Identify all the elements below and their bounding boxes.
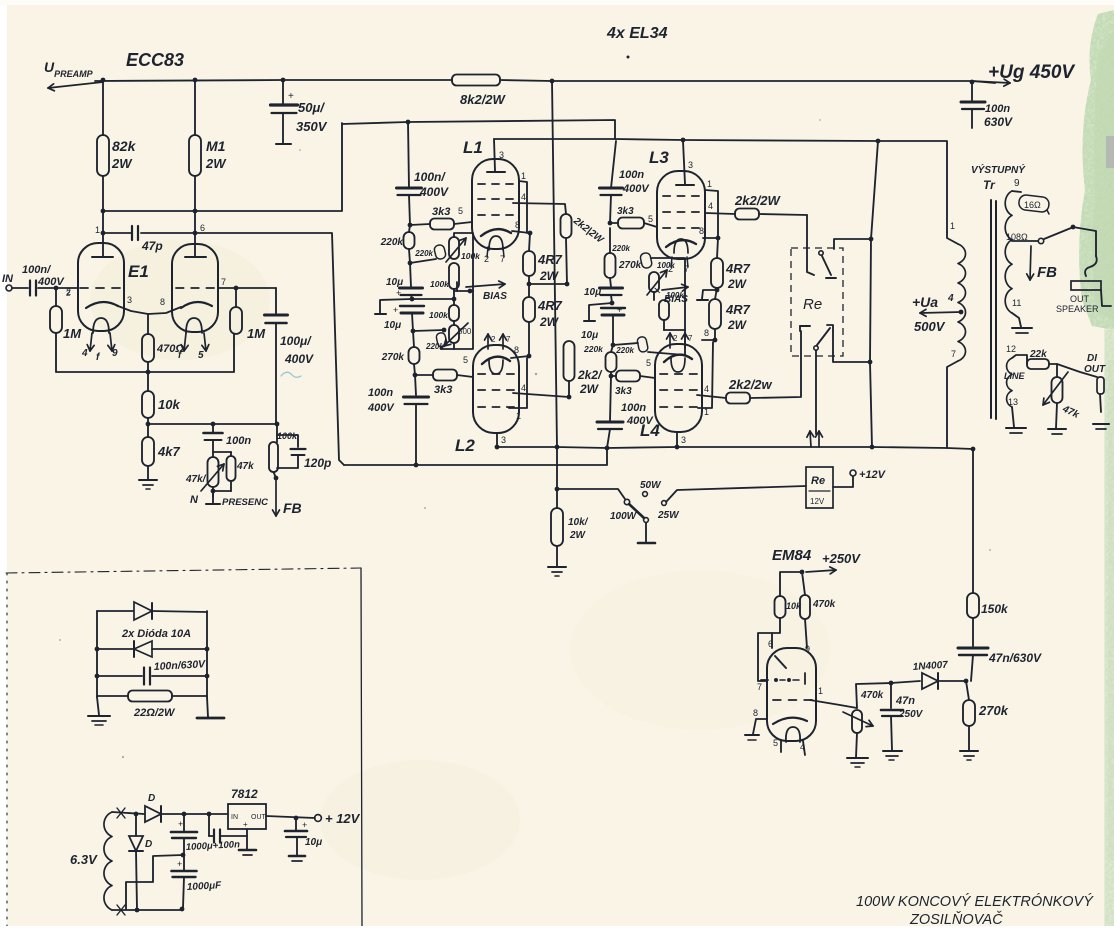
node +250V supply bbox=[800, 570, 805, 575]
svg-text:100n/: 100n/ bbox=[414, 170, 446, 184]
wire y299 to 100k + ground stub bbox=[412, 298, 454, 300]
relay upper common to vertical bbox=[834, 239, 871, 249]
wire y331 to lower cluster bbox=[413, 330, 444, 331]
transformer Tr primary winding bbox=[958, 244, 966, 361]
ground right psu bbox=[207, 697, 208, 717]
svg-text:5: 5 bbox=[463, 355, 468, 365]
resistor 220k small upper cluster bbox=[433, 244, 446, 260]
resistor 3k3 L1 grid stopper bbox=[410, 224, 430, 225]
svg-text:11: 11 bbox=[1012, 298, 1021, 308]
wire column from y123 wire bbox=[408, 122, 409, 188]
transformer heater winding 6.3V bbox=[104, 812, 112, 910]
capacitor 100n/400V L1 grid feed bbox=[397, 187, 422, 190]
regulator ground pin bbox=[246, 829, 248, 849]
node cathode/1M loop junction bbox=[146, 370, 151, 375]
svg-text:47p: 47p bbox=[141, 239, 163, 253]
svg-text:4R7: 4R7 bbox=[537, 298, 563, 313]
svg-text:+Ug 450V: +Ug 450V bbox=[988, 62, 1075, 83]
wire L4 pin4 screen bbox=[697, 395, 726, 398]
ground below 47n bbox=[883, 750, 902, 752]
tube L1 pin3 to screen rail bbox=[494, 139, 495, 171]
tube L4 pin3 bottom bbox=[676, 432, 678, 447]
svg-text:630V: 630V bbox=[984, 115, 1013, 129]
tube L2 cathode arc top bbox=[482, 357, 510, 364]
resistor 2k2/2W screen L2 bbox=[564, 341, 575, 381]
svg-text:8: 8 bbox=[753, 708, 758, 718]
resistor 4R7 2W lower bbox=[523, 297, 535, 322]
resistor M1/2W plate load bbox=[194, 80, 196, 135]
svg-text:+: + bbox=[178, 819, 183, 829]
wire top B+ rail bbox=[95, 80, 452, 81]
node L4 cathode bbox=[713, 338, 718, 343]
svg-text:4: 4 bbox=[521, 383, 526, 393]
svg-text:10μ: 10μ bbox=[386, 277, 403, 288]
ground below 47k pot bbox=[1056, 403, 1057, 428]
svg-text:3: 3 bbox=[681, 435, 686, 445]
tube L4 EL34 bbox=[655, 344, 702, 432]
tube E1 heater pin arrows 4 f 9 bbox=[90, 333, 92, 351]
tube L2 heater arrows 2 7 bbox=[487, 334, 489, 349]
node between right 10u caps + ground stub bbox=[610, 301, 615, 306]
capacitor 120p NFB bbox=[277, 435, 298, 447]
svg-text:Tr: Tr bbox=[983, 178, 996, 192]
potentiometer 100k upper cluster bbox=[449, 237, 459, 259]
svg-text:FB: FB bbox=[1037, 264, 1057, 281]
svg-text:10μ: 10μ bbox=[305, 837, 322, 848]
resistor 270k lower right bbox=[611, 345, 613, 352]
svg-text:400V: 400V bbox=[37, 276, 65, 288]
node lower right bias tap bbox=[611, 343, 616, 348]
svg-text:BIAS: BIAS bbox=[483, 291, 507, 302]
node between right 4R7s + ground stub bbox=[715, 288, 720, 293]
svg-text:2W: 2W bbox=[111, 156, 133, 171]
svg-text:3k3: 3k3 bbox=[432, 206, 450, 218]
relay coil connection arrows bbox=[810, 431, 811, 447]
svg-text:100k: 100k bbox=[277, 431, 298, 441]
svg-text:500: 500 bbox=[458, 327, 472, 336]
svg-text:2: 2 bbox=[673, 334, 678, 343]
resistor 4R7 2W right lower bbox=[709, 299, 721, 329]
resistor 100k right cluster bbox=[659, 300, 669, 320]
svg-text:IN: IN bbox=[2, 273, 14, 285]
svg-text:6.3V: 6.3V bbox=[70, 852, 98, 867]
line winding coil bbox=[1007, 358, 1012, 407]
svg-text:✕: ✕ bbox=[653, 286, 661, 297]
wire E1 plate bus y=211 bbox=[103, 123, 342, 211]
svg-text:Re: Re bbox=[811, 475, 825, 487]
svg-text:SPEAKER: SPEAKER bbox=[1056, 304, 1099, 314]
svg-text:3: 3 bbox=[688, 160, 693, 170]
potentiometer 470k EM84 grid bbox=[852, 710, 862, 733]
svg-text:4: 4 bbox=[704, 384, 709, 394]
svg-text:OUT: OUT bbox=[1070, 294, 1090, 304]
blue scanner squiggle bbox=[281, 372, 301, 377]
capacitor 1000uF lower bbox=[183, 855, 185, 870]
svg-text:400V: 400V bbox=[622, 183, 650, 195]
svg-text:1M: 1M bbox=[247, 326, 266, 341]
tube L3 grid dash rows bbox=[663, 195, 670, 197]
node between 4R7s bbox=[527, 282, 532, 287]
resistor 220k small right upper bbox=[640, 252, 653, 269]
svg-text:3: 3 bbox=[127, 295, 132, 305]
tube L2 grid dash rows bbox=[478, 373, 485, 375]
svg-text:2W: 2W bbox=[539, 269, 560, 283]
tube L2 pin3 bottom bbox=[496, 433, 498, 447]
wires right cluster box bbox=[648, 258, 685, 355]
relay lower fixed bracket bbox=[800, 325, 810, 327]
wire top rail right of 8k2 bbox=[500, 80, 995, 83]
resistor 220k upper left bbox=[409, 225, 410, 232]
wire right column from y141 bbox=[611, 141, 616, 188]
potentiometer 500 lower cluster bbox=[453, 321, 455, 325]
svg-text:2W: 2W bbox=[727, 318, 748, 332]
svg-text:470k: 470k bbox=[812, 599, 836, 610]
svg-text:100n: 100n bbox=[368, 387, 393, 399]
resistor 47k presence bbox=[213, 451, 231, 453]
tube L1 EL34 bbox=[472, 159, 519, 249]
svg-text:100n: 100n bbox=[985, 103, 1010, 115]
tube EM84 cathode arc and heater loop bbox=[773, 718, 807, 724]
svg-text:1: 1 bbox=[521, 171, 526, 181]
svg-text:500V: 500V bbox=[914, 319, 946, 334]
svg-text:47k: 47k bbox=[236, 461, 254, 472]
staircase wire to bottom return bbox=[126, 855, 183, 909]
tube EM84 magic eye bbox=[767, 648, 816, 741]
relay coil box Re 12V bbox=[806, 467, 833, 508]
tube L3 pin3 to screen rail bbox=[683, 141, 685, 184]
capacitor 100n presence bbox=[212, 424, 214, 432]
potentiometer 47k/N presence bbox=[212, 440, 214, 457]
svg-text:4: 4 bbox=[947, 293, 954, 304]
svg-text:16Ω: 16Ω bbox=[1024, 200, 1041, 210]
svg-text:OUT: OUT bbox=[251, 814, 267, 821]
wire L2 pin4 screen bbox=[513, 393, 569, 397]
resistor 1M grid a bbox=[54, 286, 59, 291]
vertical wire x=871-880 bbox=[870, 141, 878, 447]
svg-text:3k3: 3k3 bbox=[615, 386, 632, 397]
wire 10k to grid box bbox=[758, 618, 780, 681]
tube E1 triode a (ECC83 left half) bbox=[78, 243, 124, 331]
capacitor 100n small heater bbox=[208, 814, 210, 836]
svg-text:8: 8 bbox=[160, 297, 165, 307]
svg-text:47k/: 47k/ bbox=[185, 474, 207, 485]
svg-text:2W: 2W bbox=[579, 382, 600, 396]
svg-text:470Ω: 470Ω bbox=[156, 343, 184, 355]
tube L3 EL34 bbox=[657, 171, 705, 259]
svg-text:22k: 22k bbox=[1029, 349, 1047, 360]
svg-text:L3: L3 bbox=[649, 148, 669, 167]
wire E1b grid to right bbox=[218, 287, 276, 289]
capacitor 10u output bbox=[295, 818, 297, 830]
resistor 2k2/2W L4 anode to relay bbox=[726, 393, 750, 404]
node 3k3 L1 tap bbox=[408, 223, 413, 228]
wire 4R7 junction to screen chain bbox=[529, 283, 567, 285]
stray ink dot bbox=[627, 56, 630, 59]
svg-text:BIAS: BIAS bbox=[664, 294, 688, 305]
svg-text:10μ: 10μ bbox=[581, 330, 598, 341]
svg-text:2W: 2W bbox=[205, 156, 227, 171]
tube EM84 pin8 ground bbox=[753, 719, 767, 734]
tube L4 cathode arc top bbox=[664, 355, 692, 362]
relay upper moving contact bbox=[819, 251, 823, 255]
svg-text:7: 7 bbox=[684, 264, 689, 274]
relay upper fixed lead from 2k2 bbox=[806, 215, 808, 271]
capacitor 47n/250V EM84 bbox=[889, 681, 894, 686]
svg-text:100k: 100k bbox=[429, 310, 449, 320]
tube L3 cathode arc bbox=[666, 240, 696, 247]
resistor tap 16 ohm bubble bbox=[1018, 194, 1050, 213]
svg-text:8: 8 bbox=[704, 328, 709, 338]
svg-text:25W: 25W bbox=[657, 510, 680, 521]
junction dots on top rail bbox=[101, 78, 106, 83]
tube L2 EL34 bbox=[473, 345, 519, 433]
wires lower cluster box bbox=[440, 347, 442, 349]
capacitor 100n/400V L4 grid feed bbox=[610, 376, 611, 421]
wire pot node to diode bbox=[856, 681, 920, 708]
svg-text:4x EL34: 4x EL34 bbox=[606, 25, 668, 42]
svg-text:220k: 220k bbox=[380, 237, 404, 248]
capacitor 1000u+100n upper bbox=[183, 814, 185, 831]
node 3k3 L2 tap bbox=[413, 373, 418, 378]
ground below 270k bbox=[960, 750, 978, 752]
svg-text:+250V: +250V bbox=[822, 551, 861, 566]
wire heater bottom return bbox=[112, 909, 182, 911]
diode 1 of 2x Dioda 10A bbox=[97, 610, 133, 612]
capacitor 100n/400V L2 grid feed bbox=[415, 375, 416, 395]
svg-text:270k: 270k bbox=[618, 260, 642, 271]
resistor 220 small right lower bbox=[637, 336, 649, 353]
regulator 7812 bbox=[228, 804, 266, 829]
DI output jack bbox=[1057, 364, 1097, 377]
svg-text:100μ/: 100μ/ bbox=[280, 334, 312, 348]
resistor 100k lower cluster top bbox=[449, 263, 459, 289]
svg-text:100n: 100n bbox=[621, 402, 646, 414]
diode D heater 2 vertical bbox=[135, 814, 137, 835]
svg-text:4R7: 4R7 bbox=[725, 302, 751, 317]
resistor 4R7 2W upper bbox=[529, 233, 530, 251]
svg-text:13: 13 bbox=[1008, 397, 1018, 407]
wire E1b grid node to 100u cap bbox=[275, 288, 277, 313]
potentiometer 100k right cluster bbox=[649, 272, 659, 292]
node +Ua center tap bbox=[959, 310, 964, 315]
resistor 82k/2W plate load bbox=[102, 80, 104, 135]
svg-text:PRESENC: PRESENC bbox=[222, 497, 268, 508]
svg-text:+: + bbox=[288, 91, 294, 102]
svg-text:120p: 120p bbox=[304, 456, 331, 470]
resistor 270k upper right bbox=[609, 228, 611, 253]
svg-text:1: 1 bbox=[95, 225, 100, 235]
svg-text:4R7: 4R7 bbox=[725, 261, 751, 276]
svg-text:100n: 100n bbox=[226, 435, 251, 447]
switch pole circle and ground bbox=[644, 518, 649, 523]
svg-text:+: + bbox=[393, 305, 398, 315]
svg-text:3k3: 3k3 bbox=[434, 384, 452, 396]
resistor 10k/2W bbox=[551, 508, 563, 546]
resistor 10k EM84 bbox=[780, 572, 802, 596]
resistor 100k lower cluster bottom bbox=[453, 299, 455, 305]
resistor 10k NFB divider bbox=[142, 391, 154, 418]
capacitor 100u/400V bbox=[265, 314, 288, 317]
svg-text:150k: 150k bbox=[981, 602, 1009, 616]
resistor 2k2/2W L3 anode to relay bbox=[735, 209, 759, 220]
resistor 3k3 L4 grid stopper bbox=[611, 375, 616, 377]
svg-text:1M: 1M bbox=[63, 326, 82, 341]
svg-text:4k7: 4k7 bbox=[157, 444, 180, 459]
svg-text:8: 8 bbox=[514, 345, 519, 355]
svg-text:470k: 470k bbox=[860, 690, 884, 701]
wire 22k to pot and DI bbox=[1049, 364, 1057, 377]
svg-text:12V: 12V bbox=[810, 497, 825, 506]
svg-text:8k2/2W: 8k2/2W bbox=[460, 92, 507, 107]
resistor 270k lower left bbox=[413, 331, 414, 347]
wire regulator output to +12V bbox=[266, 816, 315, 818]
svg-text:3: 3 bbox=[501, 435, 506, 445]
node upper bias tap bbox=[408, 261, 413, 266]
svg-text:2k2/2w: 2k2/2w bbox=[728, 377, 773, 392]
svg-text:7: 7 bbox=[500, 254, 505, 264]
svg-text:350V: 350V bbox=[296, 119, 328, 134]
svg-text:ECC83: ECC83 bbox=[126, 50, 184, 70]
node 3k3 L4 tap bbox=[609, 374, 614, 379]
svg-text:EM84: EM84 bbox=[772, 547, 812, 564]
svg-text:100n/: 100n/ bbox=[22, 264, 52, 276]
node U preamp arrow (left end of rail) bbox=[48, 82, 103, 88]
svg-text:1000μF: 1000μF bbox=[187, 880, 223, 893]
svg-text:4: 4 bbox=[708, 201, 713, 211]
ground left psu bbox=[97, 697, 99, 715]
svg-text:2k2/: 2k2/ bbox=[577, 368, 603, 382]
tube L1 pin marks 1/2 7 bbox=[487, 247, 488, 257]
tube L1 grid dash rows bbox=[478, 183, 485, 185]
svg-text:100k: 100k bbox=[430, 279, 450, 289]
relay lower fixed to vertical bbox=[833, 331, 870, 362]
capacitor 10u bias upper bbox=[410, 263, 411, 287]
wire switch to relay coil bbox=[666, 486, 806, 502]
svg-text:8: 8 bbox=[699, 226, 704, 236]
wires upper cluster box bbox=[454, 233, 473, 291]
svg-text:9: 9 bbox=[805, 644, 810, 654]
psu bridge right bus bbox=[206, 611, 208, 697]
svg-text:7812: 7812 bbox=[231, 787, 258, 801]
resistor 22k line out bbox=[1027, 359, 1049, 369]
svg-text:220k: 220k bbox=[583, 344, 604, 354]
switch contact A 100W position bbox=[624, 499, 629, 504]
resistor 1M grid b bbox=[235, 288, 237, 307]
svg-text:10μ: 10μ bbox=[384, 320, 401, 331]
svg-text:D: D bbox=[148, 793, 155, 804]
svg-text:270k: 270k bbox=[381, 352, 405, 363]
capacitor 100n/400V L3 grid feed bbox=[600, 187, 623, 190]
svg-text:50μ/: 50μ/ bbox=[298, 100, 325, 115]
svg-text:6: 6 bbox=[768, 639, 773, 649]
svg-text:220k: 220k bbox=[414, 249, 433, 258]
svg-text:47n: 47n bbox=[895, 695, 915, 707]
svg-text:5: 5 bbox=[458, 206, 463, 216]
node between 10u caps bbox=[410, 297, 415, 302]
resistor 4R7 2W right upper bbox=[717, 238, 718, 258]
svg-text:2: 2 bbox=[491, 335, 496, 344]
page border around PSU section bbox=[6, 568, 361, 573]
switch lever bbox=[629, 504, 644, 518]
svg-text:5: 5 bbox=[648, 214, 653, 224]
wire switch feed y=489 bbox=[557, 489, 625, 499]
resistor 3k3 L2 grid stopper bbox=[415, 374, 433, 376]
svg-text:7: 7 bbox=[951, 349, 956, 359]
resistor 470k EM84 plate bbox=[802, 572, 805, 595]
wire cathode rail y=447 bbox=[497, 447, 973, 449]
relay Re dashed box bbox=[791, 248, 843, 356]
wire relay coil to +12V terminal bbox=[833, 477, 853, 487]
wire 1M bottoms loop bbox=[56, 333, 234, 372]
capacitor 50u/350V electrolytic bbox=[282, 80, 284, 103]
svg-text:2W: 2W bbox=[539, 315, 560, 329]
switch contact 25W bbox=[662, 501, 667, 506]
transformer core lines bbox=[990, 200, 992, 418]
wire to right cluster bbox=[613, 343, 638, 345]
svg-text:2W: 2W bbox=[727, 277, 748, 291]
tube EM84 display target internals bbox=[775, 656, 786, 668]
tube E1 triode b (ECC83 right half) bbox=[172, 244, 218, 332]
capacitor 100n/630V at +Ug bbox=[971, 82, 973, 100]
svg-text:2k2/2W: 2k2/2W bbox=[734, 193, 782, 208]
speaker connector OUT SPEAKER bbox=[1071, 281, 1101, 290]
svg-text:10k: 10k bbox=[158, 397, 180, 412]
svg-text:8: 8 bbox=[515, 220, 520, 230]
svg-text:E1: E1 bbox=[128, 262, 149, 281]
tube L4 heater arrows 2 7 bbox=[669, 333, 671, 348]
svg-text:+: + bbox=[243, 820, 248, 829]
arrow FB down bbox=[275, 478, 277, 516]
resistor 2k2/2W screen L1 bbox=[561, 214, 572, 238]
svg-text:6: 6 bbox=[200, 223, 205, 233]
svg-text:L1: L1 bbox=[463, 138, 483, 157]
wire NFB node to presence and 100k bbox=[148, 423, 277, 425]
svg-text:3k3: 3k3 bbox=[617, 206, 634, 217]
tube E1 triode b grid dashes bbox=[176, 287, 184, 289]
svg-text:220k: 220k bbox=[615, 346, 634, 355]
svg-text:Re: Re bbox=[803, 296, 822, 313]
relay pole wire down to rail bbox=[815, 351, 817, 434]
wire heater top with x mark bbox=[112, 812, 144, 814]
node L2 cathode bbox=[527, 354, 532, 359]
resistor 270k lower divider bbox=[963, 700, 975, 726]
potentiometer 47k DI level bbox=[1052, 377, 1063, 403]
svg-text:100k: 100k bbox=[461, 251, 481, 261]
svg-text:82k: 82k bbox=[112, 138, 137, 154]
line winding ground bbox=[1012, 407, 1014, 427]
svg-text:L2: L2 bbox=[455, 436, 475, 455]
resistor 470R cathode bbox=[147, 314, 149, 334]
svg-text:12: 12 bbox=[1006, 344, 1016, 354]
switch contact 50W bbox=[643, 492, 648, 497]
svg-text:5: 5 bbox=[198, 350, 204, 361]
tube L1 cathode arc bbox=[481, 229, 511, 236]
svg-text:+12V: +12V bbox=[859, 469, 887, 481]
svg-text:LINE: LINE bbox=[1004, 371, 1025, 381]
svg-text:N: N bbox=[190, 494, 199, 506]
svg-text:1: 1 bbox=[707, 179, 712, 189]
node FB takeoff bbox=[274, 472, 277, 478]
svg-text:+: + bbox=[302, 820, 307, 830]
svg-text:2: 2 bbox=[66, 289, 71, 298]
svg-text:DI: DI bbox=[1087, 353, 1097, 364]
resistor 4k7 NFB lower bbox=[142, 437, 154, 466]
svg-text:400V: 400V bbox=[284, 352, 314, 366]
svg-text:1: 1 bbox=[818, 686, 823, 696]
diode 1N4007 bbox=[922, 673, 938, 689]
capacitor 47p coupling bbox=[103, 232, 131, 234]
svg-text:400V: 400V bbox=[419, 185, 449, 199]
